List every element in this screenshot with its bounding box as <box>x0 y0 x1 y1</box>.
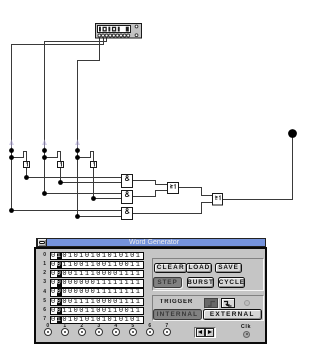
buffer U4 <box>91 162 97 168</box>
wire U6 output to U8 <box>133 191 168 197</box>
Clk terminal <box>243 331 250 338</box>
left arrow button <box>196 328 205 337</box>
buffer U3 <box>58 162 64 168</box>
word row 0 <box>40 253 46 258</box>
wire buffer3 input step <box>78 152 94 162</box>
wire column3 to U7 <box>78 216 122 218</box>
junction column3 end <box>75 214 80 219</box>
wire U7 output to U9 <box>133 203 213 214</box>
terminal 7 <box>163 324 171 329</box>
wire buffer2 input step <box>45 152 61 162</box>
window body frame <box>34 247 267 344</box>
wire column2 to U6 <box>45 193 122 195</box>
word row 2 <box>40 271 46 276</box>
step arrows panel <box>194 327 216 339</box>
junction node B1 column2 <box>42 148 47 153</box>
display instrument U1 <box>96 24 142 39</box>
AND gate U7 <box>122 208 133 220</box>
trigger LED <box>244 300 250 306</box>
wire term1 to column3 net <box>78 37 100 217</box>
terminal 3 <box>95 324 103 329</box>
wire buffer2 output to U5 <box>61 168 122 183</box>
CLEAR button <box>154 263 187 273</box>
wire U8 output to U9 <box>179 188 213 196</box>
buttons panel <box>152 258 264 292</box>
wire column1 to U7 <box>12 210 122 212</box>
title bar <box>36 238 266 248</box>
wire buffer1 output to U5 <box>27 168 122 178</box>
word row 4 <box>40 290 46 295</box>
wire term3 to column2 net <box>45 37 107 194</box>
junction node A1 column1 <box>9 148 14 153</box>
SAVE button <box>215 263 241 273</box>
wire buffer1 input step <box>12 152 27 162</box>
junction node C2 column3 buffer tap <box>75 155 80 160</box>
terminal 5 <box>129 324 137 329</box>
terminal 0 <box>44 324 52 329</box>
trigger edge button rising pressed <box>204 298 218 308</box>
wire buffer3 output to U6 <box>94 168 122 199</box>
terminal 2 <box>78 324 86 329</box>
AND gate U6 <box>122 191 133 204</box>
node arrow column2 <box>43 141 47 148</box>
word row 7 <box>40 317 46 322</box>
TRIGGER label <box>160 299 226 305</box>
wire term2 to column1 net <box>12 37 104 211</box>
word row 5 <box>40 299 46 304</box>
STEP button pressed <box>153 277 182 288</box>
junction node C1 column3 <box>75 148 80 153</box>
junction node B2 column2 buffer tap <box>42 155 47 160</box>
window title <box>45 238 263 247</box>
system menu button <box>37 238 47 248</box>
node arrow column3 <box>76 141 80 148</box>
word row 1 <box>40 262 46 267</box>
INTERNAL button pressed <box>153 309 202 320</box>
terminal 6 <box>146 324 154 329</box>
wire U9 output to probe <box>223 138 293 200</box>
terminal 4 <box>112 324 120 329</box>
output probe node <box>288 129 297 138</box>
word row 3 <box>40 280 46 285</box>
wire U5 output to U8 <box>133 181 168 185</box>
junction buffer2 output <box>58 180 63 185</box>
AND gate U5 <box>122 175 133 188</box>
word generator window <box>34 237 267 344</box>
junction buffer3 output <box>91 196 96 201</box>
EXTERNAL button <box>203 309 263 320</box>
BURST button <box>187 277 213 288</box>
LOAD button <box>186 263 212 273</box>
junction column2 end <box>42 191 47 196</box>
word row 6 <box>40 308 46 313</box>
OR gate U9 <box>213 194 223 206</box>
node arrow column1 <box>10 141 14 148</box>
right arrow button <box>205 328 214 337</box>
junction buffer1 output <box>24 175 29 180</box>
Clk label <box>238 324 254 330</box>
junction column1 end <box>9 208 14 213</box>
trigger panel <box>152 295 264 322</box>
trigger edge button falling <box>221 298 235 308</box>
OR gate U8 <box>168 183 179 194</box>
buffer U2 <box>24 162 30 168</box>
junction node A2 column1 buffer tap <box>9 155 14 160</box>
CYCLE button <box>218 277 245 288</box>
terminal 1 <box>61 324 69 329</box>
